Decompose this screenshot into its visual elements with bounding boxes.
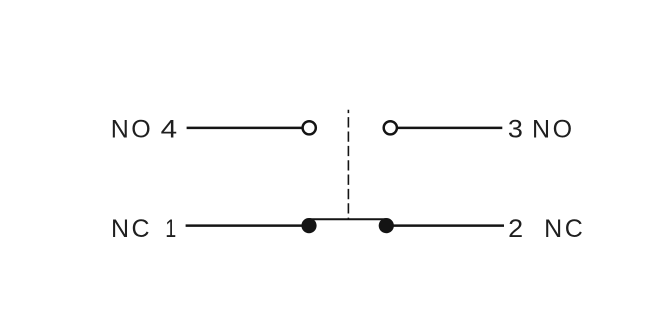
svg-text:1: 1 [165, 215, 176, 243]
NO contact right terminal (open circle) [384, 121, 397, 134]
svg-text:4: 4 [161, 116, 178, 144]
wire: pin 1 lead to NC contact left terminal [186, 224, 303, 227]
wire: NO contact right terminal to pin 3 lead [397, 127, 503, 130]
wire: pin 4 lead to NO contact left terminal [187, 127, 303, 130]
svg-text:NC: NC [111, 215, 152, 243]
actuator dashed line [347, 110, 349, 220]
NC contact left terminal (filled dot) [301, 218, 316, 233]
NC contact bridge bar [309, 218, 386, 220]
wire: NC contact right terminal to pin 2 lead [392, 224, 504, 227]
svg-text:NO: NO [111, 116, 154, 144]
svg-text:2: 2 [508, 215, 523, 243]
svg-text:NC: NC [544, 215, 585, 243]
NC contact right terminal (filled dot) [379, 218, 394, 233]
NO contact left terminal (open circle) [303, 121, 316, 134]
svg-text:NO: NO [532, 116, 575, 144]
svg-text:3: 3 [508, 116, 523, 144]
